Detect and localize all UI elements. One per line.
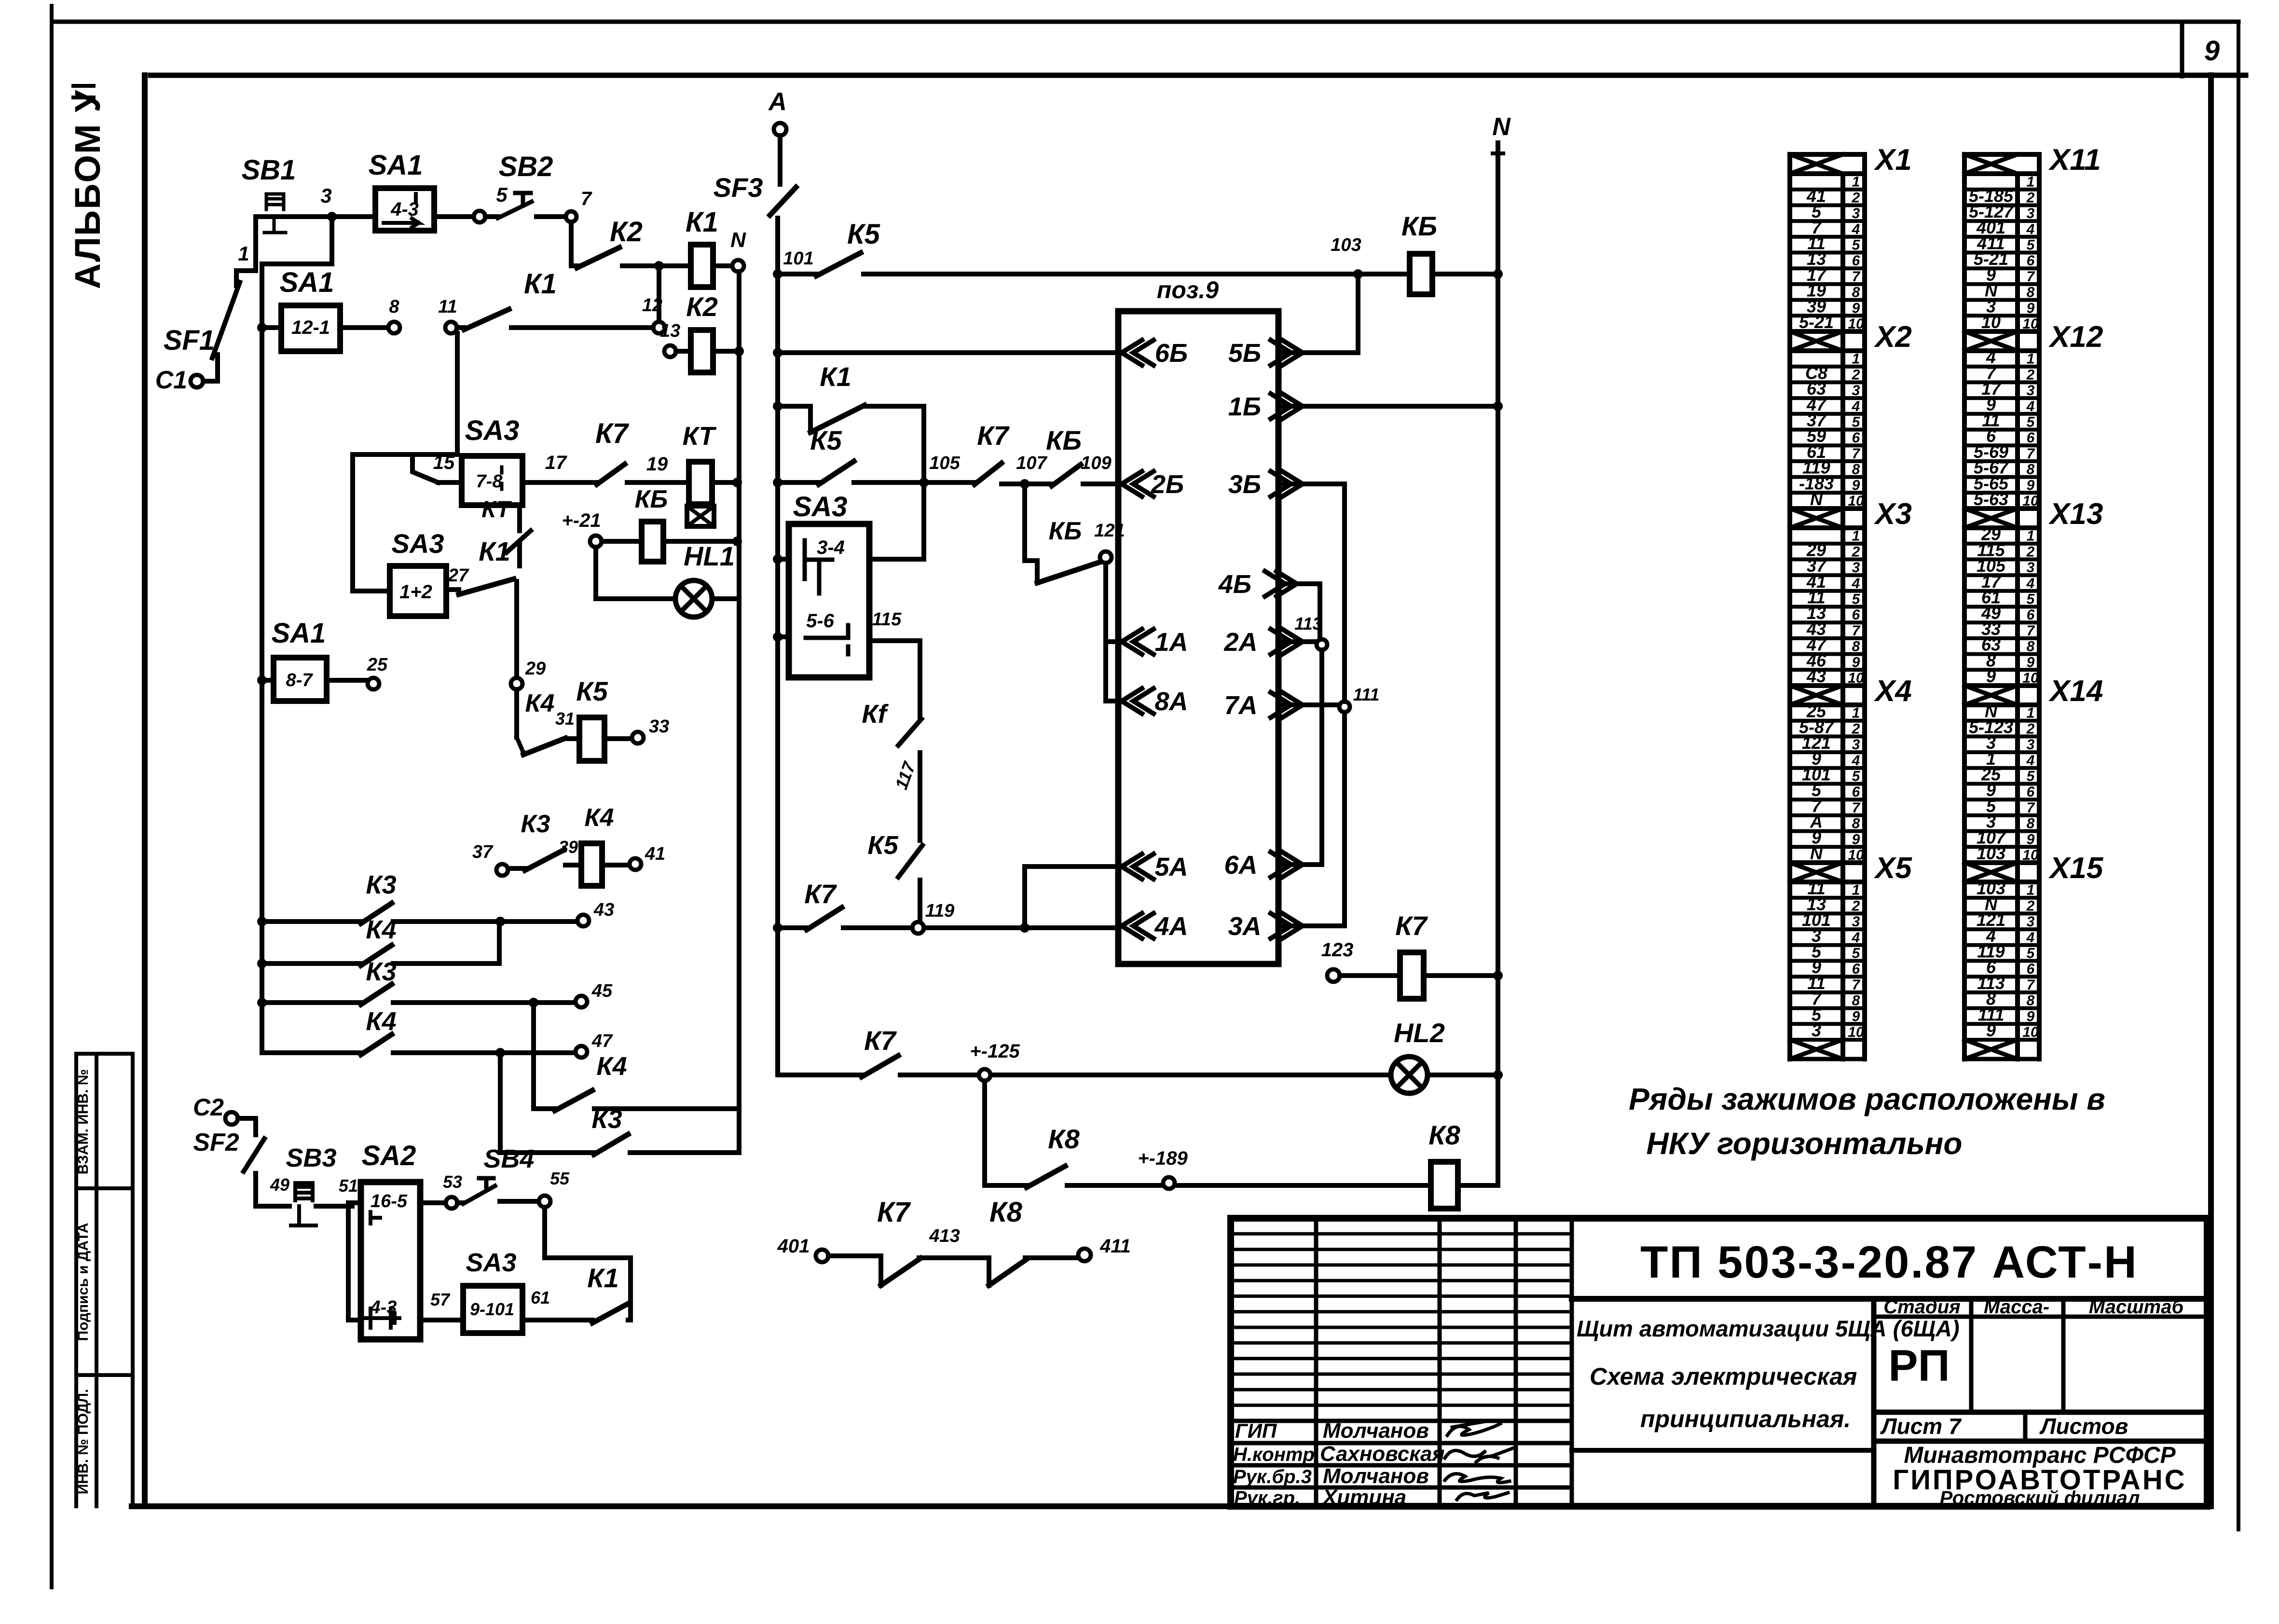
- svg-text:7: 7: [1852, 800, 1861, 816]
- svg-text:К1: К1: [820, 361, 851, 392]
- svg-text:2: 2: [1852, 544, 1860, 560]
- svg-text:Масса-: Масса-: [1984, 1296, 2049, 1318]
- svg-text:N: N: [1810, 843, 1823, 863]
- svg-text:SA1: SA1: [369, 150, 423, 181]
- svg-text:2А: 2А: [1223, 628, 1257, 657]
- svg-text:К5: К5: [576, 676, 608, 706]
- svg-text:К4: К4: [366, 1007, 396, 1036]
- svg-text:9: 9: [1852, 300, 1860, 316]
- svg-text:6: 6: [2027, 430, 2035, 446]
- svg-text:Схема электрическая: Схема электрическая: [1590, 1363, 1857, 1390]
- svg-text:3: 3: [2027, 737, 2035, 753]
- svg-text:К5: К5: [810, 425, 842, 455]
- svg-text:SA3: SA3: [465, 415, 520, 446]
- svg-text:Щит автоматизации 5ЩА (6ЩА): Щит автоматизации 5ЩА (6ЩА): [1577, 1316, 1960, 1341]
- svg-text:7: 7: [1852, 446, 1861, 462]
- svg-text:Листов: Листов: [2039, 1414, 2128, 1439]
- svg-text:К4: К4: [596, 1052, 627, 1081]
- svg-text:5: 5: [2027, 769, 2035, 784]
- svg-text:КТ: КТ: [481, 497, 512, 523]
- svg-text:9: 9: [2204, 35, 2220, 67]
- svg-text:9: 9: [2027, 1008, 2035, 1024]
- svg-text:3: 3: [1852, 914, 1860, 930]
- svg-text:К1: К1: [686, 206, 718, 238]
- svg-text:8: 8: [389, 297, 399, 317]
- svg-text:КБ: КБ: [1401, 211, 1437, 241]
- svg-text:SF1: SF1: [164, 325, 215, 356]
- svg-text:N: N: [1810, 489, 1823, 509]
- svg-text:2: 2: [1852, 721, 1860, 737]
- svg-text:SA2: SA2: [362, 1140, 416, 1171]
- svg-text:3: 3: [1852, 383, 1860, 399]
- svg-text:2: 2: [2026, 367, 2035, 383]
- svg-text:8-7: 8-7: [286, 670, 314, 690]
- svg-text:X1: X1: [1874, 143, 1912, 177]
- svg-text:10: 10: [1848, 1024, 1864, 1040]
- svg-text:1: 1: [238, 242, 249, 265]
- svg-text:2: 2: [2026, 721, 2035, 737]
- svg-text:27: 27: [448, 565, 469, 586]
- svg-text:121: 121: [1094, 521, 1125, 541]
- svg-text:X5: X5: [1874, 852, 1912, 885]
- svg-text:К8: К8: [1048, 1124, 1080, 1154]
- svg-text:6Б: 6Б: [1155, 339, 1188, 368]
- svg-text:411: 411: [1099, 1236, 1131, 1257]
- svg-text:3: 3: [2027, 560, 2035, 576]
- svg-text:К3: К3: [591, 1105, 622, 1134]
- svg-text:К4: К4: [585, 804, 614, 832]
- svg-text:109: 109: [1081, 453, 1111, 473]
- svg-text:401: 401: [777, 1236, 810, 1257]
- svg-text:6: 6: [1852, 430, 1860, 446]
- svg-text:2: 2: [1852, 190, 1860, 206]
- svg-text:ГИП: ГИП: [1235, 1419, 1277, 1442]
- svg-text:X2: X2: [1874, 320, 1912, 354]
- svg-text:8: 8: [1852, 639, 1860, 655]
- svg-text:Кf: Кf: [862, 700, 889, 729]
- svg-text:9: 9: [1986, 1020, 1996, 1040]
- svg-text:Хитина: Хитина: [1321, 1486, 1406, 1509]
- svg-text:К8: К8: [1428, 1120, 1460, 1150]
- svg-text:8: 8: [2027, 639, 2035, 655]
- svg-text:К1: К1: [524, 268, 557, 300]
- svg-text:3: 3: [2027, 914, 2035, 930]
- svg-text:6: 6: [1852, 961, 1860, 977]
- svg-text:1: 1: [1852, 882, 1860, 898]
- svg-text:2: 2: [2026, 544, 2035, 560]
- svg-text:7: 7: [2027, 446, 2035, 462]
- svg-text:33: 33: [649, 716, 669, 737]
- svg-text:Н.контр.: Н.контр.: [1233, 1444, 1320, 1465]
- svg-text:37: 37: [472, 842, 494, 862]
- svg-text:X15: X15: [2048, 852, 2104, 885]
- svg-text:7-8: 7-8: [476, 471, 503, 492]
- svg-text:3: 3: [1812, 1020, 1821, 1040]
- svg-text:45: 45: [591, 981, 613, 1001]
- svg-text:6: 6: [2027, 961, 2035, 977]
- svg-text:5: 5: [2027, 237, 2035, 253]
- svg-text:9: 9: [1986, 666, 1996, 686]
- svg-text:К7: К7: [1395, 910, 1428, 941]
- svg-text:X14: X14: [2048, 674, 2103, 708]
- svg-text:8: 8: [1852, 462, 1860, 478]
- svg-text:5-63: 5-63: [1974, 489, 2008, 509]
- svg-text:6: 6: [2027, 607, 2035, 623]
- svg-text:X4: X4: [1874, 674, 1912, 708]
- svg-text:1: 1: [1852, 528, 1860, 544]
- svg-text:4: 4: [2026, 399, 2035, 414]
- svg-text:103: 103: [1331, 235, 1361, 255]
- svg-text:К7: К7: [864, 1025, 897, 1056]
- svg-text:5-6: 5-6: [806, 610, 835, 632]
- svg-text:SB1: SB1: [242, 154, 296, 186]
- svg-text:6А: 6А: [1224, 851, 1257, 880]
- svg-text:7: 7: [1852, 269, 1861, 285]
- svg-text:X11: X11: [2048, 143, 2101, 177]
- svg-text:3: 3: [2027, 383, 2035, 399]
- svg-text:47: 47: [591, 1031, 613, 1051]
- svg-text:4А: 4А: [1154, 912, 1188, 941]
- svg-text:N: N: [1492, 113, 1511, 141]
- svg-text:4: 4: [1852, 221, 1860, 237]
- svg-text:9: 9: [1852, 477, 1860, 493]
- svg-text:КБ: КБ: [1046, 425, 1082, 455]
- svg-text:103: 103: [1977, 843, 2005, 863]
- svg-text:115: 115: [872, 609, 902, 630]
- svg-text:8: 8: [1852, 285, 1860, 301]
- svg-text:Сахновская: Сахновская: [1320, 1442, 1445, 1466]
- svg-text:Лист 7: Лист 7: [1880, 1414, 1962, 1439]
- svg-text:10: 10: [2022, 1024, 2039, 1040]
- svg-text:К4: К4: [525, 689, 555, 717]
- svg-text:АЛЬБОМ У: АЛЬБОМ У: [68, 89, 108, 289]
- svg-text:11: 11: [438, 297, 457, 317]
- svg-text:С1: С1: [155, 366, 187, 394]
- svg-text:43: 43: [1806, 666, 1826, 686]
- svg-text:4Б: 4Б: [1218, 570, 1251, 599]
- svg-text:3А: 3А: [1228, 912, 1261, 941]
- svg-text:6: 6: [2027, 784, 2035, 800]
- svg-text:9: 9: [2027, 300, 2035, 316]
- svg-text:6: 6: [1852, 253, 1860, 269]
- svg-text:7: 7: [581, 188, 592, 209]
- svg-text:SB2: SB2: [499, 151, 553, 182]
- svg-text:4: 4: [1852, 753, 1860, 769]
- svg-text:К3: К3: [366, 957, 396, 986]
- svg-text:4: 4: [2026, 221, 2035, 237]
- svg-text:4: 4: [2026, 753, 2035, 769]
- svg-text:5А: 5А: [1154, 853, 1188, 881]
- svg-text:9: 9: [1852, 654, 1860, 670]
- svg-text:6: 6: [1852, 784, 1860, 800]
- svg-text:1: 1: [2027, 351, 2035, 367]
- svg-text:X13: X13: [2048, 497, 2103, 531]
- svg-text:9: 9: [2027, 831, 2035, 847]
- svg-text:15: 15: [433, 452, 455, 473]
- svg-text:12: 12: [642, 295, 662, 316]
- svg-text:КТ: КТ: [683, 422, 717, 451]
- svg-text:3: 3: [1852, 560, 1860, 576]
- svg-text:5: 5: [1852, 237, 1861, 253]
- svg-text:7: 7: [2027, 800, 2035, 816]
- svg-text:Стадия: Стадия: [1883, 1296, 1960, 1318]
- svg-text:53: 53: [443, 1172, 462, 1192]
- svg-text:61: 61: [531, 1288, 550, 1307]
- svg-text:Ростовский филиал: Ростовский филиал: [1940, 1487, 2140, 1509]
- svg-text:С2: С2: [193, 1094, 224, 1121]
- svg-text:9: 9: [2027, 654, 2035, 670]
- svg-text:НКУ горизонтально: НКУ горизонтально: [1647, 1126, 1963, 1161]
- svg-text:12-1: 12-1: [291, 317, 330, 338]
- svg-text:2: 2: [2026, 898, 2035, 914]
- svg-text:К2: К2: [610, 216, 643, 248]
- svg-text:N: N: [730, 228, 746, 252]
- svg-text:К3: К3: [521, 810, 550, 838]
- svg-text:1: 1: [2027, 705, 2035, 721]
- svg-text:1: 1: [1852, 174, 1860, 190]
- svg-text:119: 119: [925, 901, 955, 921]
- svg-text:105: 105: [929, 453, 960, 473]
- svg-text:К2: К2: [686, 291, 718, 322]
- svg-text:8: 8: [2027, 285, 2035, 301]
- svg-text:111: 111: [1353, 685, 1380, 704]
- svg-text:3: 3: [2027, 206, 2035, 221]
- svg-text:4: 4: [1852, 576, 1860, 592]
- svg-text:HL1: HL1: [684, 541, 735, 571]
- svg-text:Масштаб: Масштаб: [2089, 1296, 2184, 1318]
- svg-text:К3: К3: [366, 870, 396, 899]
- svg-text:КБ: КБ: [1049, 517, 1082, 545]
- svg-text:9: 9: [1852, 1008, 1860, 1024]
- svg-text:КБ: КБ: [635, 485, 668, 513]
- svg-text:SB3: SB3: [286, 1143, 336, 1172]
- svg-text:принципиальная.: принципиальная.: [1640, 1405, 1851, 1432]
- svg-text:+-189: +-189: [1138, 1148, 1188, 1169]
- svg-text:К8: К8: [989, 1197, 1023, 1228]
- svg-text:16-5: 16-5: [371, 1191, 408, 1211]
- svg-text:19: 19: [646, 454, 668, 475]
- svg-text:Молчанов: Молчанов: [1323, 1419, 1429, 1443]
- svg-text:6: 6: [1852, 607, 1860, 623]
- svg-text:57: 57: [430, 1290, 451, 1309]
- svg-text:SA1: SA1: [272, 618, 326, 649]
- svg-text:9: 9: [1852, 831, 1860, 847]
- svg-text:8: 8: [1852, 993, 1860, 1009]
- svg-text:К1: К1: [479, 536, 510, 566]
- svg-text:К7: К7: [877, 1197, 911, 1228]
- svg-text:1А: 1А: [1154, 628, 1188, 657]
- svg-text:2Б: 2Б: [1151, 470, 1184, 499]
- svg-text:К5: К5: [867, 831, 898, 860]
- svg-text:HL2: HL2: [1394, 1018, 1445, 1048]
- svg-text:8: 8: [1852, 816, 1860, 832]
- svg-text:107: 107: [1016, 453, 1047, 473]
- svg-text:8: 8: [2027, 816, 2035, 832]
- svg-text:SA3: SA3: [466, 1248, 516, 1277]
- svg-text:17: 17: [545, 452, 567, 473]
- svg-text:А: А: [768, 88, 787, 116]
- svg-text:ИНВ. № ПОДЛ.: ИНВ. № ПОДЛ.: [75, 1389, 91, 1495]
- svg-text:К7: К7: [595, 418, 630, 449]
- svg-text:7: 7: [2027, 269, 2035, 285]
- svg-text:25: 25: [367, 655, 388, 675]
- svg-text:К1: К1: [587, 1263, 619, 1293]
- svg-text:39: 39: [559, 837, 578, 857]
- svg-text:+-21: +-21: [562, 510, 601, 531]
- svg-text:3Б: 3Б: [1228, 470, 1261, 499]
- svg-text:X3: X3: [1874, 497, 1912, 531]
- svg-text:поз.9: поз.9: [1157, 276, 1219, 303]
- svg-text:Подпись и ДАТА: Подпись и ДАТА: [75, 1223, 91, 1341]
- svg-text:Молчанов: Молчанов: [1323, 1464, 1429, 1488]
- svg-text:7: 7: [1852, 623, 1861, 639]
- svg-text:7: 7: [2027, 977, 2035, 993]
- svg-text:1: 1: [2027, 882, 2035, 898]
- svg-text:SF3: SF3: [714, 172, 763, 203]
- svg-text:5: 5: [1852, 946, 1861, 962]
- svg-text:ТП 503-3-20.87 АСТ-Н: ТП 503-3-20.87 АСТ-Н: [1640, 1237, 2138, 1287]
- svg-text:101: 101: [783, 248, 813, 269]
- svg-text:Рук.бр.3: Рук.бр.3: [1233, 1466, 1312, 1487]
- svg-text:49: 49: [270, 1175, 289, 1195]
- svg-text:29: 29: [525, 659, 546, 679]
- svg-text:1: 1: [2027, 174, 2035, 190]
- svg-text:4: 4: [2026, 930, 2035, 946]
- svg-text:51: 51: [339, 1176, 358, 1196]
- svg-text:7: 7: [1852, 977, 1861, 993]
- svg-text:1+2: 1+2: [399, 581, 432, 603]
- svg-text:1: 1: [1852, 351, 1860, 367]
- svg-text:К5: К5: [847, 219, 880, 250]
- svg-text:7: 7: [2027, 623, 2035, 639]
- svg-text:5Б: 5Б: [1228, 339, 1261, 368]
- svg-text:55: 55: [550, 1169, 570, 1188]
- svg-text:5: 5: [2027, 414, 2035, 430]
- svg-text:1Б: 1Б: [1228, 392, 1261, 421]
- svg-text:2: 2: [1852, 898, 1860, 914]
- svg-text:+-125: +-125: [970, 1041, 1020, 1062]
- svg-text:123: 123: [1321, 939, 1354, 961]
- svg-text:К7: К7: [804, 879, 837, 909]
- svg-text:Рук.гр.: Рук.гр.: [1234, 1487, 1300, 1509]
- svg-text:3: 3: [1852, 737, 1860, 753]
- svg-text:SA3: SA3: [392, 528, 444, 559]
- svg-text:5: 5: [496, 183, 508, 206]
- svg-text:10: 10: [1981, 312, 2001, 332]
- svg-text:5-21: 5-21: [1799, 312, 1834, 332]
- svg-text:2: 2: [2026, 190, 2035, 206]
- svg-text:1: 1: [1852, 705, 1860, 721]
- svg-text:8: 8: [2027, 462, 2035, 478]
- svg-text:3-4: 3-4: [817, 537, 845, 558]
- svg-text:43: 43: [593, 900, 614, 920]
- svg-text:SA1: SA1: [280, 267, 334, 298]
- svg-text:8: 8: [2027, 993, 2035, 1009]
- svg-text:SF2: SF2: [193, 1129, 239, 1156]
- svg-text:К4: К4: [366, 915, 396, 944]
- svg-text:SA3: SA3: [793, 491, 848, 523]
- svg-text:X12: X12: [2048, 320, 2103, 354]
- svg-text:3: 3: [320, 184, 331, 207]
- svg-text:РП: РП: [1888, 1341, 1950, 1390]
- svg-text:4: 4: [1852, 399, 1860, 414]
- svg-text:5: 5: [2027, 946, 2035, 962]
- svg-text:7А: 7А: [1224, 691, 1257, 720]
- svg-text:13: 13: [660, 321, 680, 341]
- svg-text:2: 2: [1852, 367, 1860, 383]
- svg-text:3: 3: [1852, 206, 1860, 221]
- svg-text:9: 9: [2027, 477, 2035, 493]
- svg-text:6: 6: [2027, 253, 2035, 269]
- svg-text:8А: 8А: [1154, 687, 1188, 716]
- svg-text:4: 4: [1852, 930, 1860, 946]
- svg-text:413: 413: [929, 1226, 960, 1246]
- svg-text:5: 5: [1852, 592, 1861, 607]
- svg-text:41: 41: [645, 844, 665, 864]
- svg-text:5: 5: [1852, 769, 1861, 784]
- svg-text:SB4: SB4: [483, 1144, 534, 1173]
- svg-text:Ряды зажимов расположены в: Ряды зажимов расположены в: [1629, 1082, 2105, 1116]
- svg-text:ВЗАМ. ИНВ. №: ВЗАМ. ИНВ. №: [75, 1069, 91, 1174]
- svg-text:1: 1: [2027, 528, 2035, 544]
- svg-text:К7: К7: [977, 420, 1010, 451]
- svg-text:31: 31: [555, 709, 575, 729]
- svg-text:5: 5: [1852, 414, 1861, 430]
- svg-text:9-101: 9-101: [470, 1299, 514, 1319]
- svg-text:5: 5: [2027, 592, 2035, 607]
- svg-text:4: 4: [2026, 576, 2035, 592]
